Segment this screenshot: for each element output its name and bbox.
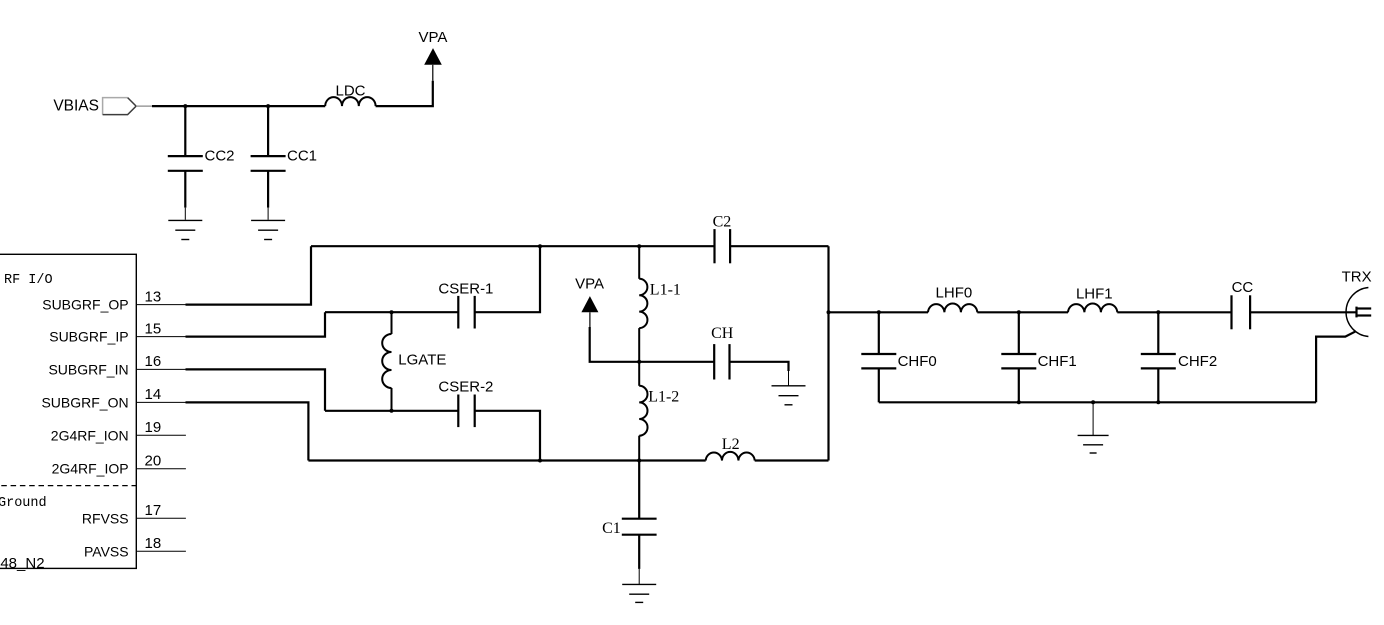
svg-text:CC1: CC1 xyxy=(287,147,317,164)
wire CSER-1 left xyxy=(325,311,458,313)
junction CHF1 top xyxy=(1017,310,1021,314)
wire CSER-1 right to top line xyxy=(475,246,540,312)
junction L1 mid tap xyxy=(637,360,641,364)
connector TRX arc xyxy=(1346,288,1368,337)
svg-text:VBIAS: VBIAS xyxy=(53,98,99,115)
power symbol VPA (top) xyxy=(424,48,442,81)
wire LDC to VPA xyxy=(376,81,433,106)
IC U1 section separator dashed line xyxy=(0,485,136,487)
svg-text:SUBGRF_IN: SUBGRF_IN xyxy=(48,361,128,377)
svg-text:LHF1: LHF1 xyxy=(1076,285,1113,302)
svg-text:SUBGRF_IP: SUBGRF_IP xyxy=(49,329,128,345)
capacitor CC xyxy=(1232,295,1251,329)
svg-text:15: 15 xyxy=(145,320,162,337)
capacitor CSER-2 xyxy=(458,395,474,428)
pin 13 stub xyxy=(136,304,185,306)
svg-text:LDC: LDC xyxy=(335,82,365,99)
svg-text:CSER-2: CSER-2 xyxy=(438,378,493,395)
capacitor CHF1 xyxy=(1001,312,1036,402)
capacitor CSER-1 xyxy=(458,296,474,329)
capacitor CHF0 xyxy=(861,312,896,402)
junction network output xyxy=(827,310,831,314)
junction rail CHF1 xyxy=(1017,400,1021,404)
wire VBIAS flag tail xyxy=(136,105,152,107)
wire CC to TRX xyxy=(1250,311,1356,313)
wire LHF0 to LHF1 xyxy=(977,311,1068,313)
wire CSER-2 right to bottom line xyxy=(475,411,540,461)
junction at CC2 xyxy=(183,104,187,108)
capacitor CH xyxy=(714,344,729,379)
svg-text:16: 16 xyxy=(145,353,162,370)
pin 15 stub xyxy=(136,336,185,338)
wire VBIAS net xyxy=(152,105,325,107)
junction L1-2 bottom xyxy=(637,459,641,463)
svg-text:18: 18 xyxy=(145,535,162,552)
svg-text:2G4RF_ION: 2G4RF_ION xyxy=(51,427,129,443)
ground below C1 xyxy=(622,584,656,602)
svg-text:C2: C2 xyxy=(713,214,732,231)
svg-text:14: 14 xyxy=(145,386,162,403)
inductor L1-2 xyxy=(639,362,647,461)
svg-text:19: 19 xyxy=(145,419,162,436)
power symbol VPA (middle) xyxy=(581,296,598,327)
ground below CC1 xyxy=(251,220,285,239)
ground below rail xyxy=(1078,435,1109,453)
wire filter ground rail xyxy=(879,401,1316,403)
svg-text:N48_N2: N48_N2 xyxy=(0,555,45,572)
wire network top line left xyxy=(311,245,715,247)
inductor LDC xyxy=(325,97,375,106)
svg-text:L1-2: L1-2 xyxy=(648,389,679,406)
svg-text:VPA: VPA xyxy=(418,29,447,46)
pin 16 stub xyxy=(136,368,185,370)
junction rail CHF2 xyxy=(1156,400,1160,404)
junction LGATE bottom xyxy=(390,409,394,413)
svg-text:CC2: CC2 xyxy=(205,147,235,164)
pin 18 stub xyxy=(136,550,186,552)
svg-text:L1-1: L1-1 xyxy=(650,282,681,299)
svg-text:CC: CC xyxy=(1232,279,1254,296)
svg-text:PAVSS: PAVSS xyxy=(84,543,129,559)
svg-text:LHF0: LHF0 xyxy=(936,284,973,301)
wire rail ground lead xyxy=(1092,402,1094,435)
svg-text:CHF0: CHF0 xyxy=(898,353,937,370)
pin 14 stub xyxy=(136,401,185,403)
svg-text:20: 20 xyxy=(145,453,162,470)
junction at CC1 xyxy=(266,104,270,108)
wire network top line right xyxy=(730,245,828,247)
capacitor CHF2 xyxy=(1141,312,1176,402)
connector VBIAS flag xyxy=(103,98,137,115)
ground below CC2 xyxy=(168,220,202,239)
wire CH right xyxy=(730,362,789,371)
inductor L1-1 xyxy=(639,246,647,362)
wire network bottom line left xyxy=(308,459,705,461)
svg-text:SUBGRF_OP: SUBGRF_OP xyxy=(42,297,128,313)
capacitor C2 xyxy=(715,229,731,263)
wire LHF1 to CC xyxy=(1117,311,1231,313)
junction rail ground tap xyxy=(1091,400,1095,404)
svg-text:TRX: TRX xyxy=(1342,268,1372,285)
wire pin14 to bottom line xyxy=(186,402,309,460)
junction L1-1 top xyxy=(637,244,641,248)
connector TRX center pin fork xyxy=(1357,307,1372,318)
svg-text:CHF2: CHF2 xyxy=(1178,353,1217,370)
wire CH ground lead xyxy=(788,371,790,386)
junction CSER-2 bottom line xyxy=(538,459,542,463)
inductor LHF1 xyxy=(1068,303,1117,312)
wire pin15 to CSER-1 xyxy=(186,312,326,336)
pin 19 stub xyxy=(136,434,186,436)
capacitor CC1 xyxy=(251,106,286,220)
wire network bottom line right xyxy=(755,459,829,461)
wire CSER-2 left xyxy=(325,410,458,412)
svg-text:C1: C1 xyxy=(602,520,621,537)
capacitor C1 xyxy=(622,461,657,585)
inductor L2 xyxy=(706,452,755,461)
wire pin16 to CSER-2 xyxy=(186,369,326,410)
svg-text:Ground: Ground xyxy=(0,496,47,511)
svg-text:CHF1: CHF1 xyxy=(1038,353,1077,370)
junction CHF2 top xyxy=(1156,310,1160,314)
junction LGATE top xyxy=(390,310,394,314)
ground below CH xyxy=(772,386,806,405)
svg-text:VPA: VPA xyxy=(575,276,604,293)
inductor LHF0 xyxy=(928,303,977,312)
svg-text:RF I/O: RF I/O xyxy=(4,273,53,288)
svg-text:SUBGRF_ON: SUBGRF_ON xyxy=(41,394,128,410)
wire output to LHF0 xyxy=(829,311,929,313)
svg-text:2G4RF_IOP: 2G4RF_IOP xyxy=(52,460,129,476)
pin 17 stub xyxy=(136,517,186,519)
wire pin13 to network xyxy=(186,246,312,304)
svg-text:L2: L2 xyxy=(722,436,740,453)
wire network right edge xyxy=(827,246,829,460)
svg-text:CSER-1: CSER-1 xyxy=(438,281,493,298)
svg-text:LGATE: LGATE xyxy=(398,351,446,368)
svg-text:CH: CH xyxy=(711,325,734,342)
capacitor CC2 xyxy=(168,106,203,220)
svg-text:13: 13 xyxy=(145,288,162,305)
svg-text:RFVSS: RFVSS xyxy=(82,510,129,526)
junction CSER-1 top line xyxy=(538,244,542,248)
wire rail to TRX shield xyxy=(1316,331,1356,402)
IC U1 body outline xyxy=(0,254,136,568)
svg-text:17: 17 xyxy=(145,502,162,519)
pin 20 stub xyxy=(136,468,186,470)
junction CHF0 top xyxy=(877,310,881,314)
inductor LGATE xyxy=(382,312,391,411)
wire VPA to CH row xyxy=(590,327,715,362)
